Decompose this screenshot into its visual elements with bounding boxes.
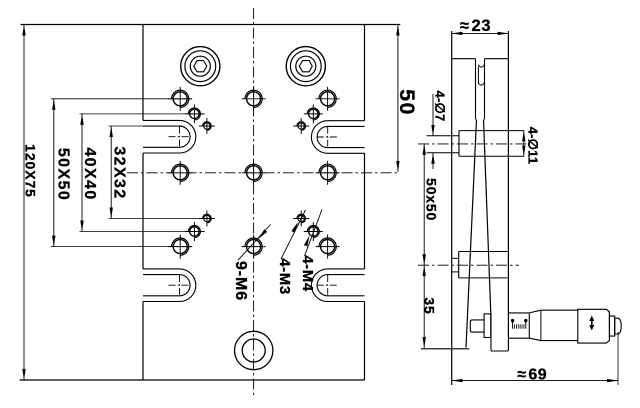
svg-text:50: 50 <box>395 89 419 116</box>
micrometer barrel <box>541 309 578 311</box>
mount slot upper-right <box>311 121 364 154</box>
M6 tapped hole bottom-left <box>173 240 187 254</box>
svg-text:4-∅11: 4-∅11 <box>525 127 540 165</box>
svg-text:32X32: 32X32 <box>111 146 128 199</box>
plate front view right edge <box>364 25 366 121</box>
counterbore hole top-right <box>286 47 325 86</box>
svg-text:≈ 69: ≈ 69 <box>517 367 547 384</box>
svg-text:50x50: 50x50 <box>424 178 440 221</box>
mount slot lower-right <box>311 269 364 302</box>
dim approx69 line <box>452 380 618 382</box>
micrometer thimble <box>578 309 610 343</box>
micrometer graduations <box>512 320 514 329</box>
side view left outer edge <box>451 31 453 385</box>
M4 tapped hole 2 <box>309 109 318 118</box>
M6 tapped hole middle-left <box>173 166 187 180</box>
side view center slot walls <box>475 59 477 120</box>
svg-text:35: 35 <box>421 297 437 314</box>
mount slot upper-left <box>143 120 196 153</box>
M6 tapped hole bottom-center <box>247 240 261 254</box>
M3 tapped hole 1 <box>204 123 210 129</box>
M6 tapped hole top-right <box>321 92 335 106</box>
boss row2 outline <box>458 252 460 278</box>
leader 9-M6 <box>238 225 271 261</box>
dim 50x50 line <box>423 144 425 265</box>
svg-text:120X75: 120X75 <box>22 144 38 198</box>
side view bottom edge <box>421 348 469 350</box>
wedge right face <box>484 120 491 314</box>
side view slot arcs <box>478 65 484 68</box>
M4 tapped hole 4 <box>309 227 318 236</box>
micrometer knob <box>615 318 622 334</box>
dim 32X32 ext top <box>109 125 144 127</box>
dim 40X40 ext top <box>80 113 205 115</box>
counterbore hole top-left <box>181 47 220 86</box>
M3 tapped hole 4 <box>298 215 304 221</box>
dim 4-d11 line <box>523 131 525 157</box>
M6 tapped hole top-left <box>173 92 187 106</box>
micrometer ratchet arrow mark <box>589 316 594 322</box>
dim 4-d7 line <box>432 94 434 136</box>
plate front view bottom edge (with dim extension) <box>20 379 365 381</box>
mount slot lower-left <box>143 269 196 302</box>
front view horizontal centerline <box>127 172 400 174</box>
side view right outer edge <box>507 31 509 351</box>
boss row1 outline <box>458 131 460 157</box>
dim 40X40 line <box>81 114 83 232</box>
plate front view left edge <box>142 25 144 121</box>
dim approx69 ext right <box>617 332 619 385</box>
micrometer spindle <box>470 320 484 332</box>
svg-text:4-M3: 4-M3 <box>276 258 293 295</box>
micrometer end cap <box>609 316 614 336</box>
dim 35 line <box>423 265 425 348</box>
micrometer sleeve <box>508 312 529 314</box>
M4 tapped hole 3 <box>190 227 199 236</box>
wedge bar bottom <box>490 314 492 352</box>
dim 50 line right <box>397 25 399 172</box>
svg-text:9-M6: 9-M6 <box>232 261 249 301</box>
side view top face <box>452 58 476 60</box>
svg-text:≈ 23: ≈ 23 <box>460 17 491 35</box>
plate front view top edge (with dim extension) <box>21 24 401 26</box>
M3 tapped hole 2 <box>298 123 304 129</box>
center hole bottom <box>235 331 273 369</box>
M4 tapped hole 1 <box>190 109 199 118</box>
side centerline row1 <box>418 143 530 145</box>
M6 tapped hole middle-center <box>247 166 261 180</box>
svg-text:40X40: 40X40 <box>81 147 98 200</box>
dim approx23 line <box>452 32 509 34</box>
leader 4-M3 <box>281 210 306 259</box>
dim 50X50 line <box>53 99 55 247</box>
shaft row2 lines <box>452 257 459 259</box>
dim 32X32 line <box>110 126 112 219</box>
svg-text:4-∅7: 4-∅7 <box>432 91 447 122</box>
dim 50X50 ext top <box>51 98 192 100</box>
dim 40X40 ext bottom <box>80 231 205 233</box>
wedge left face <box>466 120 477 348</box>
micrometer barrel taper <box>529 310 541 313</box>
svg-text:4-M4: 4-M4 <box>299 255 316 292</box>
M3 tapped hole 3 <box>204 215 210 221</box>
micrometer flange <box>484 314 491 338</box>
front view vertical centerline <box>253 8 255 397</box>
side centerline row2 <box>418 264 519 266</box>
dim 120X75 line <box>23 25 25 381</box>
dim 50X50 ext bottom <box>51 246 192 248</box>
M6 tapped hole bottom-right <box>321 240 335 254</box>
shaft row1 lines <box>427 135 460 137</box>
M6 tapped hole top-center <box>247 92 261 106</box>
leader 4-M4 <box>305 210 323 257</box>
svg-text:50X50: 50X50 <box>54 148 71 201</box>
M6 tapped hole middle-right <box>321 166 335 180</box>
dim 32X32 ext bottom <box>109 218 216 220</box>
